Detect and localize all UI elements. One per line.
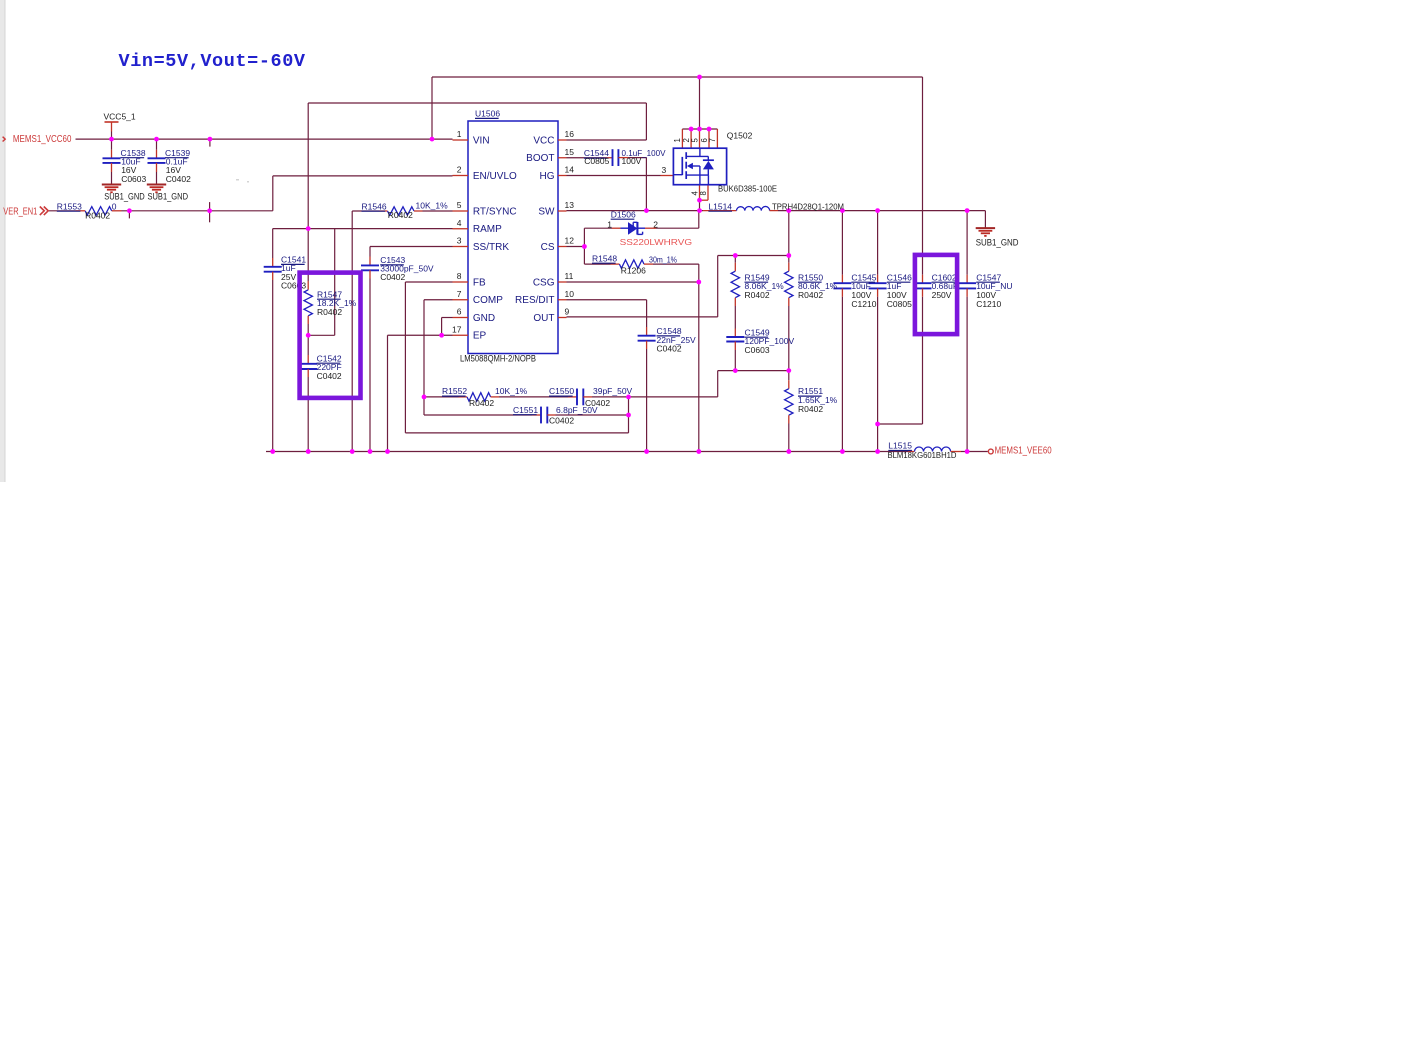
svg-text:HG: HG [540,171,555,182]
svg-text:MEMS1_VCC60: MEMS1_VCC60 [13,133,72,145]
svg-text:GND: GND [473,313,495,324]
svg-text:EP: EP [473,331,487,342]
svg-text:1: 1 [607,219,612,229]
svg-text:C0603: C0603 [121,174,146,184]
svg-text:VCC: VCC [533,135,554,146]
svg-text:R0402: R0402 [469,398,494,408]
svg-text:C0603: C0603 [745,345,770,355]
svg-text:13: 13 [565,200,575,210]
svg-text:R1552: R1552 [442,386,467,396]
svg-text:C1210: C1210 [851,299,876,309]
svg-text:C0402: C0402 [317,371,342,381]
svg-text:R1548: R1548 [592,253,617,263]
svg-text:C1550: C1550 [549,386,574,396]
svg-text:14: 14 [565,165,575,175]
svg-text:VCC5_1: VCC5_1 [104,112,136,122]
svg-text:OUT: OUT [533,313,554,324]
svg-text:10K_1%: 10K_1% [495,386,528,396]
svg-text:3: 3 [661,165,666,175]
svg-text:SUB1_GND: SUB1_GND [148,191,189,201]
svg-text:BOOT: BOOT [526,153,554,164]
svg-text:15: 15 [565,147,575,157]
svg-text:U1506: U1506 [475,109,500,119]
svg-text:5: 5 [457,200,462,210]
svg-text:R0402: R0402 [317,307,342,317]
svg-text:CSG: CSG [533,277,555,288]
svg-text:7: 7 [708,138,717,142]
svg-text:R1553: R1553 [57,201,82,211]
svg-text:C1210: C1210 [976,299,1001,309]
svg-text:0: 0 [112,201,117,211]
svg-text:R0402: R0402 [388,210,413,220]
svg-text:TPRH4D28Q1-120M: TPRH4D28Q1-120M [772,201,844,211]
svg-text:17: 17 [452,324,462,334]
svg-text:5: 5 [690,138,699,143]
svg-text:SW: SW [538,206,555,217]
svg-text:D1506: D1506 [611,209,636,219]
svg-text:10: 10 [565,289,575,299]
svg-text:C0805: C0805 [584,156,609,166]
svg-text:C0603: C0603 [281,281,306,291]
svg-text:LM5088QMH-2/NOPB: LM5088QMH-2/NOPB [460,354,536,364]
svg-text:10K_1%: 10K_1% [416,201,449,211]
svg-text:VIN: VIN [473,135,490,146]
svg-text:COMP: COMP [473,295,503,306]
svg-text:R0402: R0402 [85,211,110,221]
svg-text:R0402: R0402 [798,290,823,300]
svg-text:BUK6D385-100E: BUK6D385-100E [718,184,777,194]
svg-text:R0402: R0402 [745,290,770,300]
svg-text:SUB1_GND: SUB1_GND [976,237,1019,247]
svg-text:R1546: R1546 [362,201,387,211]
svg-text:C0402: C0402 [380,272,405,282]
svg-text:R0402: R0402 [798,404,823,414]
svg-text:RT/SYNC: RT/SYNC [473,206,517,217]
svg-text:11: 11 [565,271,574,281]
svg-text:C0402: C0402 [657,344,682,354]
svg-text:CS: CS [541,242,555,253]
svg-text:7: 7 [457,289,462,299]
svg-text:VER_EN1: VER_EN1 [3,206,37,218]
svg-text:C1551: C1551 [513,405,538,415]
svg-text:8: 8 [457,271,462,281]
svg-text:2: 2 [653,219,658,229]
svg-text:RES/DIT: RES/DIT [515,295,554,306]
svg-text:BLM18KG601BH1D: BLM18KG601BH1D [888,450,957,460]
svg-text:C0805: C0805 [887,299,912,309]
svg-text:1: 1 [457,129,462,139]
svg-text:RAMP: RAMP [473,224,502,235]
svg-text:100V: 100V [622,156,642,166]
svg-text:9: 9 [565,307,570,317]
svg-text:Q1502: Q1502 [727,131,753,141]
svg-text:EN/UVLO: EN/UVLO [473,171,517,182]
svg-text:SS/TRK: SS/TRK [473,242,509,253]
svg-text:30m_1%: 30m_1% [649,255,677,265]
svg-text:MEMS1_VEE60: MEMS1_VEE60 [995,444,1052,456]
svg-text:SS220LWHRVG: SS220LWHRVG [620,237,693,247]
svg-text:Vin=5V,Vout=-60V: Vin=5V,Vout=-60V [119,51,306,72]
svg-text:1: 1 [673,138,682,142]
svg-text:16: 16 [565,129,575,139]
svg-text:2: 2 [457,165,462,175]
svg-text:C0402: C0402 [549,416,574,426]
svg-text:FB: FB [473,277,486,288]
svg-text:6.8pF_50V: 6.8pF_50V [556,405,598,415]
svg-text:8: 8 [699,191,708,195]
svg-text:12: 12 [565,236,575,246]
svg-text:3: 3 [457,236,462,246]
svg-text:R1206: R1206 [621,266,646,276]
svg-text:6: 6 [457,307,462,317]
svg-text:C0402: C0402 [166,174,191,184]
svg-text:L1514: L1514 [708,201,732,211]
svg-text:SUB1_GND: SUB1_GND [104,191,145,201]
svg-text:39pF_50V: 39pF_50V [593,386,633,396]
svg-text:4: 4 [457,218,462,228]
svg-text:250V: 250V [932,290,952,300]
